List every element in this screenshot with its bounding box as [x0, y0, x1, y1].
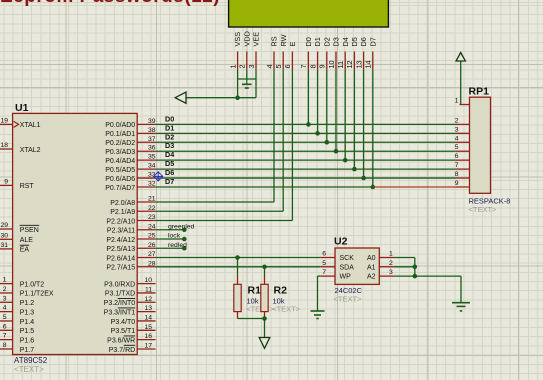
svg-text:11: 11: [336, 61, 345, 69]
svg-text:P1.3: P1.3: [20, 309, 35, 316]
svg-text:29: 29: [0, 222, 8, 229]
svg-text:P3.5/T1: P3.5/T1: [111, 328, 136, 335]
svg-text:A1: A1: [367, 264, 376, 271]
svg-text:24: 24: [148, 223, 156, 230]
svg-text:39: 39: [148, 118, 156, 125]
svg-text:32: 32: [148, 180, 156, 187]
svg-text:7: 7: [299, 64, 308, 68]
svg-text:34: 34: [148, 163, 156, 170]
svg-text:31: 31: [0, 242, 8, 249]
svg-text:30: 30: [0, 232, 8, 239]
svg-text:2: 2: [389, 260, 393, 267]
svg-text:2: 2: [455, 117, 459, 124]
svg-text:P1.4: P1.4: [20, 319, 35, 326]
svg-text:VDD: VDD: [242, 31, 251, 46]
svg-text:SCK: SCK: [340, 255, 355, 262]
svg-text:P0.2/AD2: P0.2/AD2: [105, 140, 135, 147]
svg-text:P1.1/T2EX: P1.1/T2EX: [20, 291, 54, 298]
svg-text:<TEXT>: <TEXT>: [272, 305, 301, 314]
svg-text:1: 1: [455, 98, 459, 105]
svg-text:8: 8: [455, 171, 459, 178]
svg-text:25: 25: [148, 233, 156, 240]
svg-text:P0.3/AD3: P0.3/AD3: [105, 149, 135, 156]
svg-text:EA: EA: [20, 247, 30, 254]
svg-text:VSS: VSS: [233, 32, 242, 47]
svg-text:P2.6/A14: P2.6/A14: [106, 255, 135, 262]
svg-text:23: 23: [148, 214, 156, 221]
svg-text:1: 1: [228, 64, 237, 68]
svg-text:P0.5/AD5: P0.5/AD5: [105, 167, 135, 174]
svg-text:13: 13: [354, 60, 363, 68]
svg-text:D1: D1: [313, 37, 322, 46]
svg-text:8: 8: [3, 342, 7, 349]
svg-text:U1: U1: [15, 102, 29, 114]
svg-text:6: 6: [322, 251, 326, 258]
svg-text:3: 3: [455, 126, 459, 133]
svg-text:XTAL1: XTAL1: [20, 122, 41, 129]
svg-text:4: 4: [265, 64, 274, 68]
svg-text:D4: D4: [341, 37, 350, 46]
svg-text:1: 1: [389, 251, 393, 258]
svg-text:E: E: [288, 42, 297, 47]
svg-text:11: 11: [145, 286, 152, 293]
svg-text:3: 3: [389, 269, 393, 276]
svg-text:VEE: VEE: [252, 32, 261, 47]
svg-text:16: 16: [144, 333, 152, 340]
svg-text:RP1: RP1: [469, 86, 490, 98]
svg-text:RST: RST: [20, 183, 35, 190]
svg-text:Eeprom Passwords(12): Eeprom Passwords(12): [0, 0, 220, 7]
svg-text:37: 37: [148, 136, 156, 143]
svg-text:6: 6: [455, 153, 459, 160]
svg-text:35: 35: [148, 154, 156, 161]
svg-text:24C02C: 24C02C: [335, 286, 363, 295]
svg-text:WP: WP: [340, 274, 352, 281]
svg-text:15: 15: [144, 324, 152, 331]
svg-text:P1.2: P1.2: [20, 300, 35, 307]
svg-text:P3.0/RXD: P3.0/RXD: [104, 281, 135, 288]
svg-text:P2.1/A9: P2.1/A9: [110, 209, 135, 216]
svg-text:A2: A2: [367, 274, 376, 281]
svg-text:greenled: greenled: [168, 223, 195, 230]
svg-text:18: 18: [0, 142, 8, 149]
svg-text:3: 3: [247, 64, 256, 68]
svg-text:26: 26: [148, 242, 156, 249]
svg-text:5: 5: [3, 314, 7, 321]
svg-text:5: 5: [322, 260, 326, 267]
svg-text:D0: D0: [304, 37, 313, 46]
svg-text:12: 12: [144, 296, 152, 303]
svg-text:P3.1/TXD: P3.1/TXD: [105, 291, 135, 298]
svg-text:RW: RW: [279, 34, 288, 46]
svg-text:P0.1/AD1: P0.1/AD1: [105, 131, 135, 138]
svg-text:D0: D0: [165, 114, 174, 123]
svg-text:P3.4/T0: P3.4/T0: [111, 319, 136, 326]
svg-text:4: 4: [3, 305, 7, 312]
svg-text:P2.4/A12: P2.4/A12: [106, 237, 135, 244]
svg-text:P2.3/A11: P2.3/A11: [107, 228, 135, 235]
svg-text:13: 13: [144, 305, 152, 312]
svg-text:21: 21: [148, 196, 156, 203]
svg-text:6: 6: [3, 323, 7, 330]
svg-text:P2.7/A15: P2.7/A15: [106, 265, 135, 272]
svg-text:17: 17: [144, 342, 152, 349]
svg-text:5: 5: [455, 144, 459, 151]
svg-text:1: 1: [3, 277, 7, 284]
svg-text:U2: U2: [334, 236, 348, 248]
svg-text:P1.0/T2: P1.0/T2: [20, 281, 45, 288]
svg-text:9: 9: [318, 64, 327, 68]
svg-text:19: 19: [0, 117, 8, 124]
svg-text:P0.6/AD6: P0.6/AD6: [105, 176, 135, 183]
svg-text:R2: R2: [274, 285, 288, 297]
svg-text:P0.0/AD0: P0.0/AD0: [105, 122, 135, 129]
svg-text:9: 9: [455, 180, 459, 187]
svg-text:D5: D5: [350, 37, 359, 46]
svg-text:lock: lock: [168, 233, 181, 240]
svg-text:P1.7: P1.7: [20, 347, 35, 354]
svg-text:XTAL2: XTAL2: [20, 147, 41, 154]
svg-text:4: 4: [455, 135, 459, 142]
svg-text:5: 5: [274, 64, 283, 68]
svg-text:D6: D6: [359, 37, 368, 46]
svg-text:P3.7/RD: P3.7/RD: [109, 347, 135, 354]
svg-text:<TEXT>: <TEXT>: [14, 365, 44, 374]
svg-text:27: 27: [148, 251, 156, 258]
svg-text:<TEXT>: <TEXT>: [469, 205, 498, 214]
svg-text:RS: RS: [270, 36, 279, 46]
svg-text:12: 12: [345, 60, 354, 68]
svg-text:P3.6/WR: P3.6/WR: [107, 337, 135, 344]
svg-text:6: 6: [283, 64, 292, 68]
svg-text:redled: redled: [168, 242, 187, 249]
svg-text:7: 7: [3, 333, 7, 340]
svg-text:P2.5/A13: P2.5/A13: [106, 246, 135, 253]
svg-text:2: 2: [3, 286, 7, 293]
svg-text:SDA: SDA: [340, 264, 355, 271]
svg-text:10: 10: [144, 277, 152, 284]
svg-text:P0.7/AD7: P0.7/AD7: [105, 185, 135, 192]
svg-text:<TEXT>: <TEXT>: [334, 295, 363, 304]
svg-text:14: 14: [364, 60, 373, 68]
svg-text:P2.2/A10: P2.2/A10: [106, 218, 135, 225]
svg-text:8: 8: [308, 64, 317, 68]
svg-text:P1.6: P1.6: [20, 337, 35, 344]
svg-text:28: 28: [148, 260, 156, 267]
svg-text:D3: D3: [332, 37, 341, 46]
svg-text:A0: A0: [367, 255, 376, 262]
svg-text:14: 14: [144, 314, 152, 321]
svg-text:10: 10: [327, 60, 336, 68]
svg-text:3: 3: [3, 295, 7, 302]
svg-text:D2: D2: [322, 37, 331, 46]
svg-text:36: 36: [148, 145, 156, 152]
svg-text:D7: D7: [368, 37, 377, 46]
svg-text:R1: R1: [248, 285, 262, 297]
svg-text:PSEN: PSEN: [20, 227, 39, 234]
svg-text:7: 7: [322, 269, 326, 276]
svg-text:P0.4/AD4: P0.4/AD4: [105, 158, 135, 165]
svg-text:38: 38: [148, 127, 156, 134]
svg-text:ALE: ALE: [20, 237, 34, 244]
svg-text:22: 22: [148, 205, 156, 212]
svg-text:7: 7: [455, 162, 459, 169]
svg-text:2: 2: [238, 64, 247, 68]
svg-text:P2.0/A8: P2.0/A8: [110, 200, 135, 207]
svg-text:P3.2/INT0: P3.2/INT0: [104, 300, 136, 307]
svg-text:9: 9: [4, 178, 8, 185]
svg-text:P3.3/INT1: P3.3/INT1: [104, 309, 136, 316]
svg-text:AT89C52: AT89C52: [14, 356, 48, 365]
svg-text:P1.5: P1.5: [20, 328, 35, 335]
